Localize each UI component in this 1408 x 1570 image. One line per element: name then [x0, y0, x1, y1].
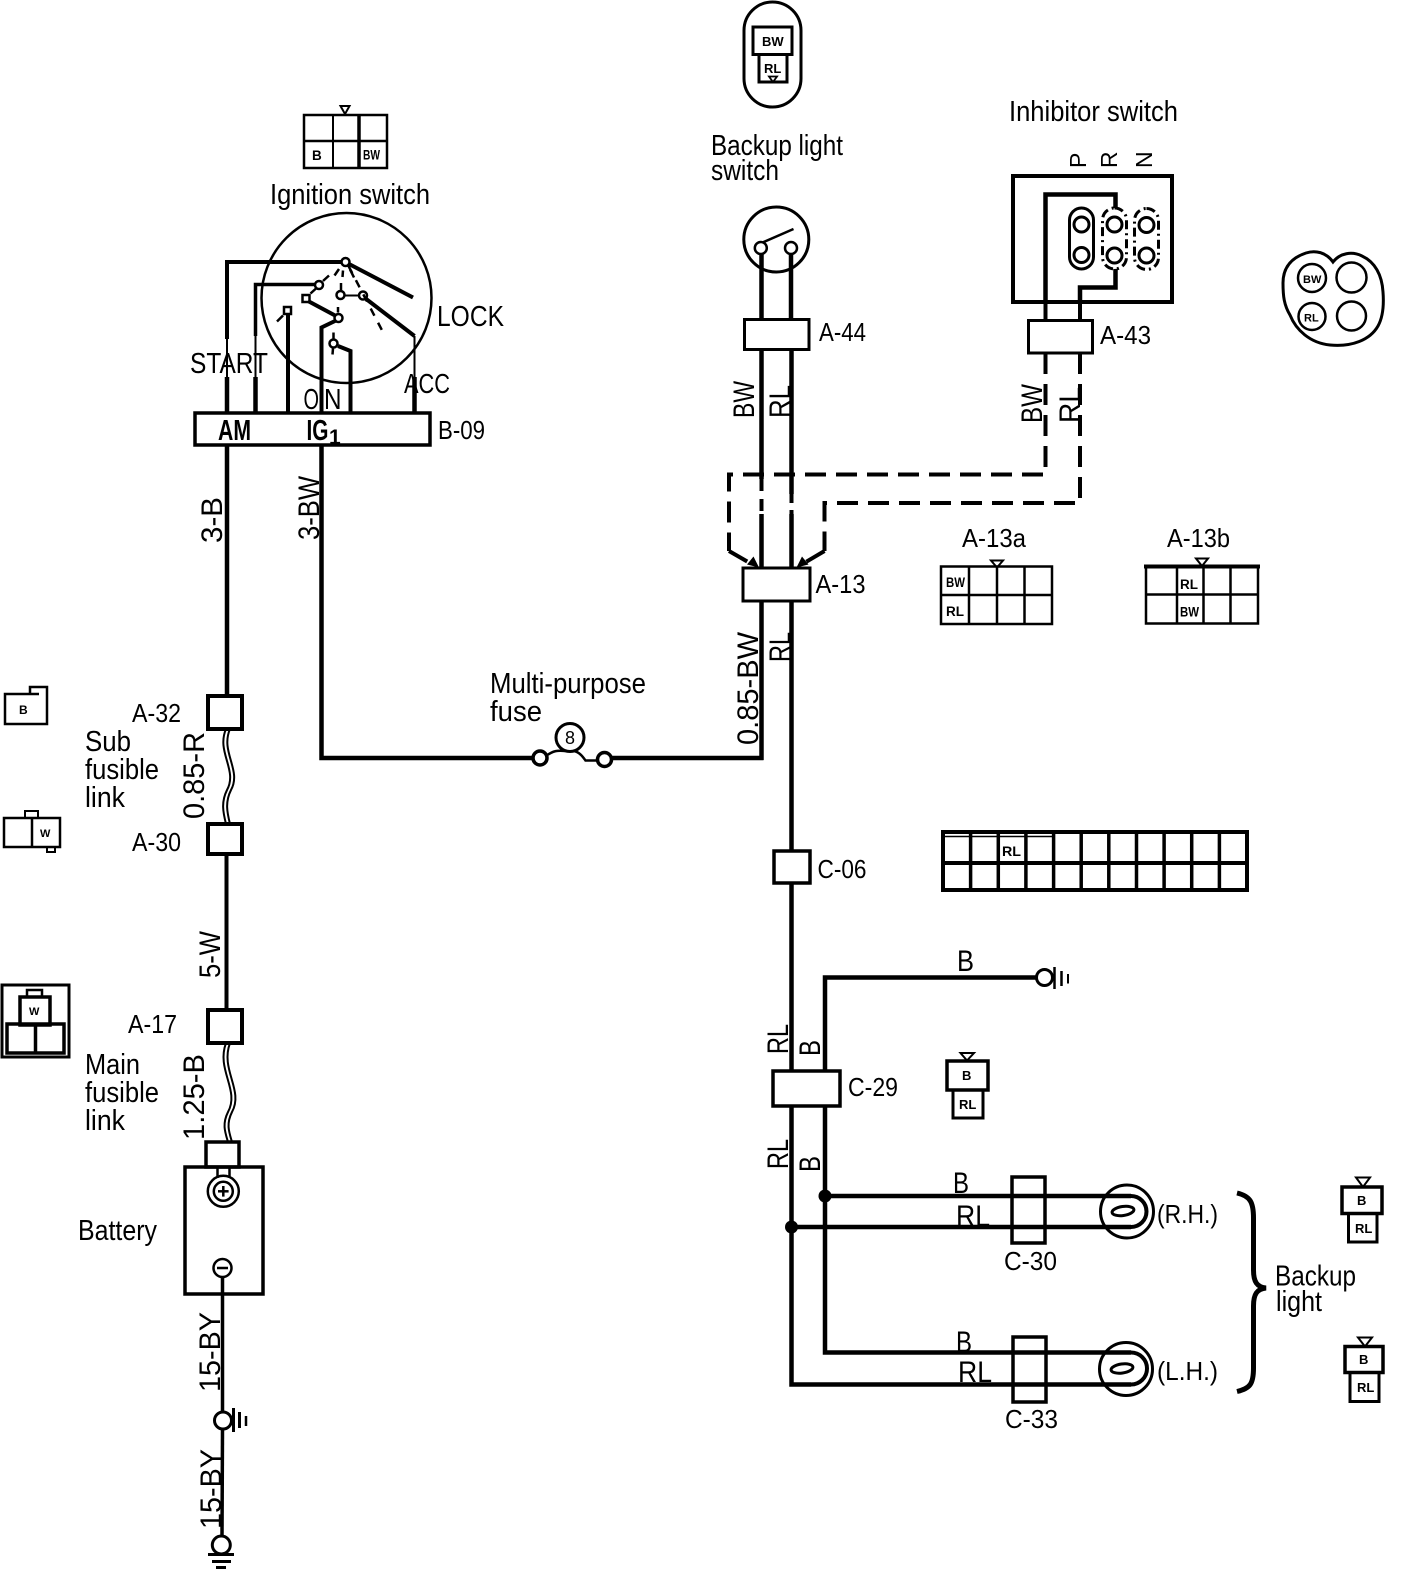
svg-text:RL: RL — [1054, 387, 1087, 423]
svg-text:B: B — [962, 1068, 971, 1083]
svg-text:B: B — [312, 148, 322, 163]
ignition switch contact (START row) — [315, 276, 329, 290]
connector A-13 box — [743, 568, 810, 601]
svg-text:Battery: Battery — [78, 1215, 157, 1247]
svg-text:BW: BW — [728, 380, 761, 418]
battery plus terminal — [208, 1176, 239, 1207]
battery terminal connector box — [206, 1142, 239, 1167]
svg-text:RL: RL — [956, 1200, 990, 1233]
ignition switch right contact E (ACC) with arm — [345, 292, 415, 414]
wire 3-BW (B-09 IG1 down and right to fuse) — [322, 445, 534, 758]
svg-text:AM: AM — [218, 415, 251, 447]
wires inhibitor box to A-43 — [1044, 302, 1048, 321]
connector icon B/RL (right of C-30) — [1342, 1178, 1382, 1243]
svg-text:RL: RL — [764, 385, 797, 418]
svg-text:RL: RL — [764, 61, 781, 76]
inhibitor pin N — [1135, 209, 1159, 270]
svg-text:START: START — [190, 348, 268, 380]
svg-text:3-BW: 3-BW — [293, 475, 326, 540]
connector A-43 box — [1029, 321, 1093, 354]
svg-text:(R.H.): (R.H.) — [1157, 1199, 1218, 1229]
svg-text:B: B — [956, 1326, 972, 1359]
connector A-30 box — [208, 824, 242, 854]
svg-text:RL: RL — [1180, 577, 1198, 592]
wire 5-W (A-30 to A-17) — [225, 854, 229, 1010]
svg-text:N: N — [1131, 151, 1157, 168]
connector A-32 box — [208, 696, 242, 729]
svg-text:R: R — [1096, 151, 1122, 168]
4-pin connector bottom right pin — [1337, 302, 1366, 331]
ignition switch ACC position dashed radius — [349, 266, 386, 336]
svg-text:B: B — [953, 1167, 969, 1200]
svg-text:RL: RL — [959, 1097, 976, 1112]
4-pin connector top right pin — [1337, 263, 1367, 293]
svg-text:B-09: B-09 — [438, 415, 485, 445]
svg-text:BW: BW — [1180, 605, 1199, 620]
ignition switch contact D (IG1) with wire to B-09 — [322, 307, 343, 413]
svg-text:RL: RL — [1304, 313, 1319, 325]
svg-text:fuse: fuse — [490, 696, 542, 728]
svg-text:Inhibitor switch: Inhibitor switch — [1009, 96, 1178, 128]
backup light switch body — [744, 207, 809, 272]
svg-text:A-32: A-32 — [132, 698, 181, 728]
svg-text:3-B: 3-B — [196, 497, 229, 543]
svg-text:15-BY: 15-BY — [195, 1449, 228, 1529]
svg-text:RL: RL — [1355, 1221, 1372, 1236]
inhibitor pin P — [1070, 208, 1094, 269]
backup light bulb L.H. — [1100, 1343, 1153, 1396]
connector A-17 box — [208, 1010, 242, 1043]
wire 15-BY (mid ground to bottom ground) — [220, 1429, 224, 1537]
svg-text:LOCK: LOCK — [437, 301, 505, 333]
wire B to C-30 — [825, 1194, 1131, 1199]
svg-text:A-30: A-30 — [132, 827, 181, 857]
svg-text:link: link — [85, 782, 125, 814]
main fusible link connector icon (left margin) — [2, 985, 69, 1057]
svg-text:B: B — [19, 703, 28, 717]
connector B-09 box — [195, 413, 430, 445]
svg-text:(L.H.): (L.H.) — [1157, 1356, 1218, 1386]
svg-text:W: W — [29, 1006, 40, 1018]
svg-text:ACC: ACC — [404, 368, 450, 399]
connector A-44 box — [745, 320, 810, 350]
svg-text:BW: BW — [363, 148, 380, 163]
svg-text:W: W — [40, 828, 51, 840]
brace for backup light — [1237, 1193, 1266, 1392]
bottom ground terminal — [208, 1536, 234, 1568]
wire RL to C-30 — [792, 1225, 1132, 1230]
svg-text:BW: BW — [1303, 274, 1322, 286]
svg-text:B: B — [794, 1156, 827, 1172]
inhibitor switch RL internal wire — [1080, 256, 1116, 303]
junction node RL — [785, 1221, 798, 1234]
dashed wire RL (A-43 to A-13) — [805, 353, 1080, 563]
connector icon B/RL (below C-06 right, near C-29) — [947, 1053, 988, 1118]
svg-text:RL: RL — [762, 1024, 795, 1054]
svg-text:0.85-BW: 0.85-BW — [732, 631, 765, 745]
wire 3-B (B-09 AM to A-32) — [225, 445, 230, 696]
wire AM feed (pivot to B-09 AM) — [227, 262, 342, 413]
svg-text:C-33: C-33 — [1005, 1404, 1058, 1434]
wire RL down to C-33 — [792, 1227, 1132, 1385]
wire RL (C-06 to C-29) — [789, 883, 794, 1071]
svg-text:BW: BW — [946, 575, 965, 590]
wire 15-BY (battery to mid ground) — [221, 1277, 225, 1413]
svg-text:Ignition switch: Ignition switch — [270, 179, 430, 211]
svg-text:RL: RL — [1357, 1380, 1374, 1395]
dashed wire BW (A-43 to A-13) — [729, 353, 1046, 563]
svg-text:BW: BW — [762, 34, 784, 49]
wire contact2 feed to B-09 — [256, 285, 316, 414]
svg-text:RL: RL — [762, 1139, 795, 1169]
svg-text:0.85-R: 0.85-R — [178, 732, 211, 819]
wire RL (A-13 to C-06) — [789, 601, 794, 851]
fuse box grid connector (12 columns) — [943, 832, 1247, 890]
svg-text:A-44: A-44 — [819, 317, 866, 347]
mid ground terminal — [215, 1408, 247, 1432]
svg-text:A-13a: A-13a — [962, 523, 1026, 553]
4-pin connector BW pin — [1298, 264, 1326, 292]
wires switch to A-44 — [759, 253, 764, 320]
connector C-30 box — [1012, 1177, 1045, 1243]
wire from fuse to backup light RL wire — [612, 756, 764, 761]
backup light bulb R.H. — [1101, 1185, 1154, 1238]
connector C-06 box — [774, 851, 810, 883]
svg-text:B: B — [957, 945, 974, 978]
svg-text:RL: RL — [1002, 843, 1021, 859]
svg-text:N: N — [324, 384, 342, 416]
ignition switch pivot contact — [335, 258, 355, 278]
junction node B — [819, 1190, 832, 1203]
svg-text:switch: switch — [711, 155, 779, 187]
svg-text:B: B — [1359, 1352, 1368, 1367]
wire 0.85-BW (A-13 to fuse wire) — [759, 601, 764, 760]
ignition switch contact F with wire to B-09 — [330, 333, 351, 414]
connector C-33 box — [1013, 1337, 1046, 1402]
ignition switch body circle — [262, 213, 432, 383]
svg-text:8: 8 — [565, 728, 575, 748]
4-pin connector RL pin — [1299, 303, 1326, 330]
svg-text:C-29: C-29 — [848, 1072, 898, 1102]
svg-text:1.25-B: 1.25-B — [178, 1054, 211, 1140]
main fusible link wavy wire — [223, 1043, 235, 1142]
ignition switch thick diagonal A to D — [308, 301, 336, 316]
svg-text:C-30: C-30 — [1004, 1246, 1057, 1276]
connector icon with B (left margin, top) — [5, 687, 47, 724]
wires A-44 to A-13 (BW, RL) — [759, 350, 764, 480]
inhibitor switch BW internal wire — [1046, 195, 1116, 303]
connector icon with W (left margin, middle) — [4, 811, 60, 852]
A-13b connector grid — [1144, 559, 1260, 624]
svg-text:O: O — [304, 384, 320, 416]
svg-text:B: B — [794, 1040, 827, 1056]
connector C-29 box — [773, 1071, 840, 1106]
inhibitor switch box — [1013, 176, 1172, 302]
svg-text:15-BY: 15-BY — [194, 1312, 227, 1392]
svg-text:IG: IG — [307, 415, 329, 447]
multi-purpose fuse symbol no.8 — [533, 724, 612, 767]
4-pin round connector (top right) — [1283, 252, 1383, 346]
svg-text:A-17: A-17 — [128, 1009, 177, 1039]
ignition switch mid contact C — [337, 283, 345, 299]
svg-text:C-06: C-06 — [818, 854, 867, 884]
wires below C-29 — [789, 1106, 794, 1227]
svg-text:A-13: A-13 — [816, 569, 866, 599]
A-13a connector grid — [941, 561, 1052, 625]
wire B down to C-33 — [825, 1196, 1131, 1353]
svg-text:RL: RL — [946, 604, 964, 619]
ignition switch square contact A — [303, 289, 317, 303]
svg-text:light: light — [1276, 1286, 1322, 1318]
arrowhead into A-13 right — [797, 557, 809, 568]
svg-text:A-43: A-43 — [1100, 320, 1151, 350]
inhibitor pin R — [1103, 208, 1127, 269]
ignition switch square contact B with wire to B-09 — [277, 307, 291, 413]
backup light switch connector icon (capsule, top) — [744, 2, 801, 107]
svg-text:RL: RL — [958, 1356, 992, 1389]
battery box — [185, 1167, 263, 1294]
connector B-29 icon (ignition switch connector, top left) — [304, 106, 387, 168]
svg-text:BW: BW — [1016, 383, 1049, 423]
svg-text:P: P — [1065, 153, 1091, 168]
sub fusible link wavy wire — [223, 729, 234, 824]
svg-text:A-13b: A-13b — [1167, 523, 1230, 553]
svg-text:1: 1 — [329, 426, 341, 449]
connector icon B/RL (right of C-33) — [1345, 1338, 1383, 1402]
body ground terminal (screw) — [1037, 967, 1069, 989]
svg-text:B: B — [1357, 1193, 1366, 1208]
svg-text:link: link — [85, 1105, 125, 1137]
arrowhead into A-13 left — [747, 557, 759, 568]
battery minus terminal — [214, 1259, 232, 1277]
svg-text:5-W: 5-W — [194, 930, 227, 978]
svg-text:RL: RL — [764, 632, 797, 662]
wire B (C-29 up and right to body ground) — [825, 978, 1037, 1072]
ignition switch LOCK arm — [349, 264, 413, 298]
